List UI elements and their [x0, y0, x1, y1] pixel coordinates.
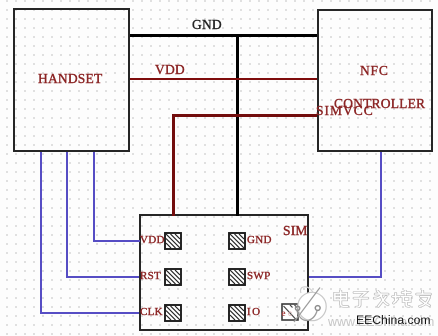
- svg-text:e: e: [282, 308, 286, 318]
- svg-text:c: c: [288, 309, 292, 318]
